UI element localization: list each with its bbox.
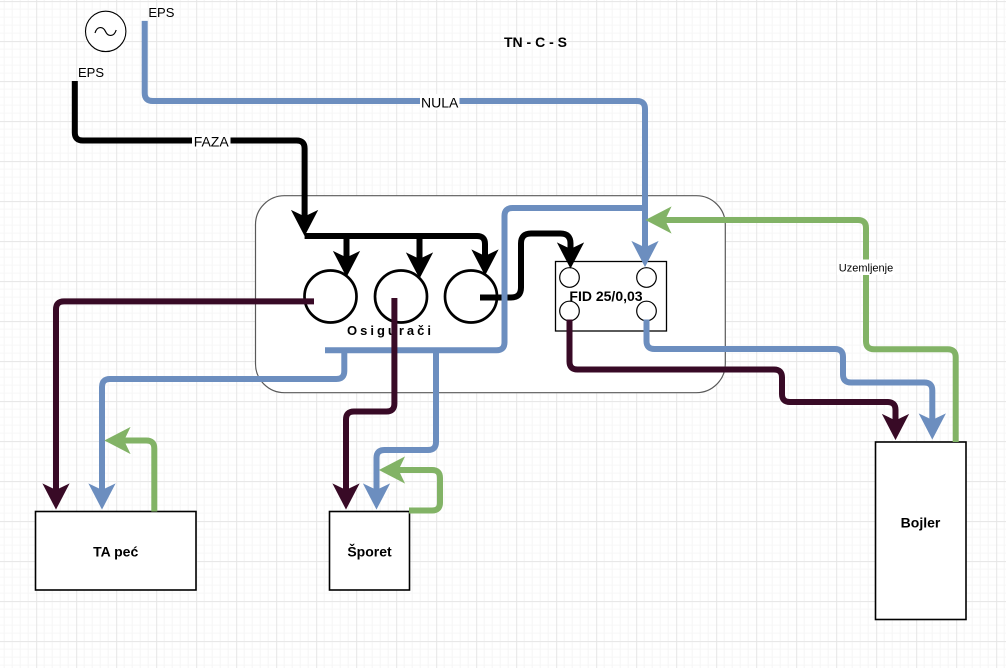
wire FAZA (black, EPS to bus): [75, 81, 317, 235]
svg-text:TN - C - S: TN - C - S: [504, 34, 567, 50]
svg-text:Bojler: Bojler: [901, 515, 941, 531]
wire ground at TA pec (green): [106, 428, 155, 512]
wire neutral FID to Bojler (blue): [647, 320, 945, 439]
label Osiguraci: [347, 323, 434, 338]
svg-text:Uzemljenje: Uzemljenje: [839, 263, 893, 275]
RCD FID block: [556, 262, 667, 332]
fuse circle F1: [305, 271, 357, 323]
wire phase FID to Bojler (maroon): [570, 320, 909, 440]
svg-text:Šporet: Šporet: [347, 543, 392, 560]
title TN - C - S: [504, 34, 567, 50]
svg-text:Osigurači: Osigurači: [347, 323, 434, 338]
Bojler box: [876, 442, 967, 620]
FID terminal top-left: [560, 268, 580, 288]
wire F3 to FID (black): [480, 234, 583, 298]
TA pec box: [36, 512, 197, 591]
FID terminal top-right: [637, 268, 657, 288]
wire ground at Sporet (green): [380, 458, 440, 511]
label Uzemljenje: [837, 260, 895, 276]
wire ground Uzemljenje (green): [647, 208, 956, 443]
svg-text:EPS: EPS: [148, 5, 174, 20]
svg-text:EPS: EPS: [78, 65, 104, 80]
svg-text:TA peć: TA peć: [93, 544, 138, 560]
wire phase F2 to Sporet (maroon): [334, 298, 395, 509]
FID terminal bottom-left: [560, 301, 580, 321]
wire neutral to Sporet (blue): [364, 350, 436, 508]
wire bus branch to F2: [407, 236, 432, 278]
wire neutral branch (blue, NULA to bus): [325, 208, 645, 350]
wire bus branch to F1: [334, 236, 359, 276]
svg-text:NULA: NULA: [421, 95, 459, 111]
label NULA: [420, 94, 460, 111]
wire phase F1 to TA pec (maroon): [44, 301, 315, 508]
wire phase bus (black): [305, 236, 498, 275]
fuse circle F3: [445, 271, 497, 323]
svg-text:FAZA: FAZA: [194, 133, 230, 149]
label EPS (left): [78, 65, 104, 80]
FID terminal bottom-right: [637, 301, 657, 321]
wire NULA (blue, EPS to FID): [145, 21, 658, 266]
label FAZA: [192, 133, 231, 149]
AC source EPS: [86, 11, 126, 51]
distribution box (rounded container): [256, 196, 726, 393]
fuse circle F2: [375, 271, 427, 323]
Sporet box: [330, 512, 410, 591]
svg-text:FID 25/0,03: FID 25/0,03: [569, 288, 642, 304]
wire neutral to TA pec (blue): [90, 350, 345, 508]
label EPS (top): [148, 5, 174, 20]
